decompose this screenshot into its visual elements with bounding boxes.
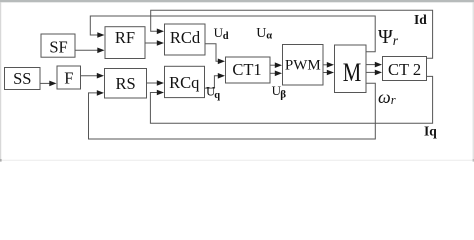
block CT2 bbox=[383, 57, 427, 81]
block RS bbox=[105, 69, 147, 99]
svg-text:U: U bbox=[256, 26, 266, 41]
wire omega_r feedback (M right to RS left) bbox=[89, 83, 376, 139]
arrowhead PWM to M upper bbox=[327, 62, 334, 68]
arrowhead F to RS bbox=[97, 73, 104, 79]
svg-text:Id: Id bbox=[414, 12, 427, 27]
block M (motor) bbox=[335, 45, 367, 93]
svg-text:RS: RS bbox=[116, 74, 136, 93]
svg-text:β: β bbox=[280, 89, 286, 101]
svg-text:RCd: RCd bbox=[170, 28, 201, 47]
arrowhead Uq into CT1 bbox=[218, 73, 225, 79]
block RCq bbox=[165, 66, 205, 97]
wire Uq (RCq right to CT1 lower input) bbox=[205, 76, 220, 88]
wire RF to RCd bbox=[145, 42, 159, 44]
wire SF to RF bbox=[75, 49, 99, 51]
outer frame right edge bbox=[472, 2, 474, 160]
wire F to RS bbox=[81, 75, 99, 77]
arrowhead CT1 to PWM lower bbox=[275, 71, 282, 77]
arrowhead SS to F bbox=[49, 81, 56, 87]
wire CT1 to PWM upper (U_alpha) bbox=[270, 64, 277, 66]
outer frame top edge bbox=[0, 0, 474, 2]
outer frame left edge bbox=[0, 2, 2, 160]
wire Id feedback (CT2 right to RCd left) bbox=[151, 10, 433, 58]
outer frame bottom-left corner mark bbox=[0, 159, 2, 162]
arrowhead M to CT2 upper bbox=[375, 62, 382, 68]
arrowhead RF to RCd bbox=[157, 40, 164, 46]
svg-text:M: M bbox=[343, 59, 362, 88]
svg-text:RF: RF bbox=[115, 28, 135, 47]
block RF bbox=[105, 27, 145, 59]
svg-text:d: d bbox=[223, 31, 229, 42]
svg-text:CT1: CT1 bbox=[232, 60, 261, 79]
arrowhead Iq into RCq bbox=[157, 90, 164, 96]
block PWM bbox=[283, 45, 324, 86]
wire Iq feedback (CT2 right to RCq left) bbox=[150, 76, 432, 123]
arrowhead Ud into CT1 bbox=[218, 59, 225, 65]
arrowhead RS to RCq bbox=[157, 80, 164, 86]
wire M to CT2 lower bbox=[366, 71, 377, 73]
wire CT1 to PWM lower (U_beta) bbox=[270, 72, 277, 74]
svg-text:ωr: ωr bbox=[378, 87, 396, 107]
block RCd bbox=[165, 24, 206, 55]
svg-text:Ψr: Ψr bbox=[378, 26, 399, 48]
wire PWM to M upper bbox=[323, 64, 329, 66]
block F bbox=[57, 66, 81, 89]
block SF bbox=[41, 34, 75, 57]
wire SS to F bbox=[40, 82, 51, 84]
arrowhead Psi_r into RF bbox=[97, 32, 104, 38]
svg-text:Iq: Iq bbox=[424, 124, 437, 139]
svg-text:PWM: PWM bbox=[285, 57, 321, 73]
wire Psi_r feedback (M right to RF left) bbox=[90, 16, 375, 52]
svg-text:F: F bbox=[64, 68, 73, 87]
arrowhead PWM to M lower bbox=[327, 70, 334, 76]
outer frame bottom edge bbox=[1, 159, 474, 161]
outer frame bottom-right corner mark bbox=[473, 159, 474, 162]
svg-text:RCq: RCq bbox=[169, 73, 199, 92]
arrowhead CT1 to PWM upper bbox=[275, 62, 282, 68]
wire RS to RCq bbox=[147, 82, 159, 84]
wire PWM to M lower bbox=[323, 72, 329, 74]
svg-text:SS: SS bbox=[13, 69, 31, 88]
arrowhead M to CT2 lower bbox=[375, 70, 382, 76]
svg-text:α: α bbox=[266, 31, 272, 42]
svg-text:q: q bbox=[214, 90, 220, 101]
wire M to CT2 upper bbox=[366, 64, 377, 66]
block CT1 bbox=[226, 57, 271, 83]
arrowhead SF to RF bbox=[97, 48, 104, 54]
svg-text:SF: SF bbox=[49, 38, 67, 57]
arrowhead omega_r into RS bbox=[97, 90, 104, 96]
arrowhead Id into RCd bbox=[157, 29, 164, 35]
block SS bbox=[5, 68, 41, 90]
svg-text:CT 2: CT 2 bbox=[388, 60, 421, 79]
wire Ud (RCd right to CT1 upper input) bbox=[205, 44, 220, 62]
